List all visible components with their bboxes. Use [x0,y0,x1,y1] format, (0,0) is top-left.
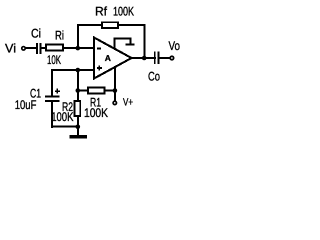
svg-text:10uF: 10uF [15,98,37,112]
capacitor Ci [36,43,38,54]
wire R1 horizontal [78,90,115,92]
op-amp U1 triangle [94,38,132,79]
inverting input marker - [97,48,101,50]
svg-text:100K: 100K [84,106,109,120]
node R1 left junction [76,88,81,93]
wire non-inverting input [51,69,94,71]
wire R2 bottom to ground junction [77,116,79,127]
resistor Ri [46,45,63,51]
wire C1 top drop [51,69,53,96]
wire C1 bottom drop [51,102,53,128]
wire Co to Vo [159,57,170,59]
svg-text:V+: V+ [123,97,133,109]
non-inverting input marker + [97,67,102,69]
resistor Rf [102,22,118,28]
node output junction [142,56,147,61]
svg-text:Ri: Ri [55,29,64,43]
resistor R1 [88,88,105,94]
wire Ri to op-amp inverting input [63,47,94,49]
node R1 right junction [113,88,118,93]
svg-text:100K: 100K [51,110,74,124]
wire bias riser (+input to R2) [77,70,79,102]
wire riser inverting node to feedback [77,24,79,48]
wire feedback right drop [143,24,145,58]
svg-text:100K: 100K [113,5,134,19]
wire Vi to Ci [25,47,37,49]
wire C1 to ground junction [51,126,78,128]
svg-text:Co: Co [148,70,160,84]
svg-text:Vo: Vo [169,39,181,53]
node Vi terminal [22,47,26,51]
wire op-amp output [131,57,156,59]
node non-inverting junction [76,68,81,73]
svg-text:Ci: Ci [31,27,41,41]
svg-text:Vi: Vi [5,42,16,56]
node V+ terminal [113,101,116,104]
capacitor C1 (polarized) [45,96,60,98]
node inverting junction [76,46,81,51]
wire V+ stub [114,91,116,102]
node Vo terminal [170,56,174,60]
svg-text:A: A [105,53,111,63]
capacitor Co [154,52,156,65]
op-amp V- pin to ground bar [115,39,131,50]
wire ground stub [77,127,79,136]
svg-text:Rf: Rf [95,5,108,19]
wire op-amp V+ pin drop [114,67,116,91]
resistor R2 [75,101,81,116]
svg-text:10K: 10K [47,53,61,67]
wire Ci to Ri [42,47,47,49]
node ground junction [76,125,81,130]
wire feedback top [77,24,146,26]
ground [69,135,87,139]
polarity + of C1 [55,90,60,91]
